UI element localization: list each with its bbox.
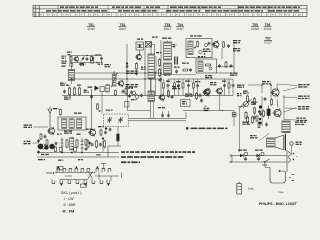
resistor R6 [115,90,117,96]
parts right of botb [218,61,233,68]
leader [283,96,297,99]
svg-text:T51: T51 [88,23,94,27]
label TR1 [295,122,306,126]
label bank1 [57,134,81,135]
wire [219,94,221,111]
wire rail D [37,152,119,154]
transistor T52 symbol [117,80,124,88]
wire [286,133,292,156]
cluster2 [185,92,202,100]
tuning capacitor C30 [104,114,129,127]
circle pot [41,144,46,149]
label T57 top [262,81,271,85]
parts cluster [128,88,136,95]
label between T55s [210,82,217,85]
svg-text:rete: rete [279,190,284,194]
label osc [105,64,111,67]
label GBT [250,135,258,139]
label above [137,37,158,40]
label ferrite [53,108,82,115]
transistor T55 heading [251,23,259,31]
trimmer arrow [81,57,85,62]
wire rail B [70,78,161,80]
label b.c [79,64,103,65]
label MW [64,203,76,207]
oscillator coil L2 [111,71,118,88]
note marker [186,127,228,129]
labels right column [297,84,310,121]
diode D2 [238,150,247,158]
wire AVC vertical [91,89,93,130]
svg-text:SK1 ( pos.I ): SK1 ( pos.I ) [61,191,82,195]
diagonal [259,134,270,142]
capacitor C6 [122,90,125,94]
IF band components [163,79,235,96]
node [71,72,162,96]
columns small [243,105,268,128]
resistor R14 [66,85,71,96]
svg-text:T53: T53 [165,23,171,27]
resistor R15 [73,87,75,96]
note text [121,151,195,163]
parts col A [55,142,58,153]
box interior extra [186,44,214,55]
electrolytic C33 [117,134,120,141]
wire [150,42,152,95]
leader lines [283,88,297,113]
output jack J1 [290,142,302,146]
node [206,110,223,111]
wire [70,56,102,63]
label FM [63,209,75,213]
capacitor C4 [70,55,98,66]
svg-text:batt.: batt. [249,186,255,190]
cluster right of T52b [98,126,107,140]
transistor T53 symbol [135,53,142,61]
wire [161,67,234,75]
svg-text:PHILIPS - MOD. L3I32T: PHILIPS - MOD. L3I32T [259,202,297,206]
svg-text:T56: T56 [265,23,271,27]
label above S5 [190,35,202,36]
label ant1 [24,125,33,129]
capacitor C15 [200,99,203,103]
label mid [141,67,146,70]
resistor R7 [135,62,137,70]
transistor T51a symbol [73,56,79,63]
label above T52b [64,129,92,134]
wire rail A2 [217,72,234,74]
wire [155,73,157,96]
resistor R1 [68,54,73,62]
label rete [279,190,284,194]
svg-text:II : MW: II : MW [64,203,76,207]
transistor T57 symbol [271,88,280,98]
transistor T55 symbol [203,88,210,96]
svg-text:III : FM: III : FM [63,209,75,213]
transistor T52 heading [119,23,127,31]
wire [233,111,235,127]
wire x145 [144,47,146,96]
IF transformer S5 box [186,39,212,58]
label PBT [251,102,257,105]
transistor T56 symbol [202,89,209,97]
wire tuning bus [129,112,187,121]
dark parts [256,115,261,124]
IF output box [196,59,217,73]
wire rail C2 [160,95,233,97]
label LW [64,197,74,201]
label R1 value [67,52,72,53]
svg-text:AF117: AF117 [119,28,127,31]
dark circles [38,144,55,150]
cluster right of S6 [158,86,180,101]
resistor col R25 [264,97,273,106]
wire [140,44,155,60]
svg-text:AF117: AF117 [164,28,172,31]
svg-text:T57: T57 [265,37,271,41]
label 4.7k [126,84,139,88]
transistor T51 symbol [47,127,55,136]
svg-text:AC126: AC126 [264,28,272,31]
battery B1 [237,182,242,194]
bandswitch SK1 diagram [46,164,122,188]
wire audio [240,104,244,152]
ferrite antenna L5 [58,117,86,130]
wire osc vertical [126,44,129,96]
svg-text:Cx: Cx [37,7,39,9]
label above botb [198,56,205,57]
label SK1 [61,191,82,195]
label bottom [38,154,101,161]
mains loop [270,168,294,184]
wire [248,84,263,126]
coil L1 [95,54,101,55]
parts col B [85,139,91,151]
wire FM bottom [70,62,103,64]
transistor T54 heading [176,23,184,31]
diode D3 [255,150,264,158]
wire pair [128,79,154,118]
label above can1 [162,38,171,39]
IF transformer S3 [148,54,155,79]
resistor R21 [245,111,247,119]
IF transformer S4b can [164,63,172,74]
transistor T54 symbol [212,40,219,48]
parts left col [37,139,48,154]
wire rail A [75,72,161,74]
driver transformer TR1 [282,121,290,133]
wire rail C [62,95,161,97]
boxed label AF-MF [181,100,191,107]
parts row2 [259,110,265,118]
AVC cluster [88,86,105,92]
label mid parts [182,63,192,73]
capacitor C40 [244,157,247,161]
svg-text:AF116: AF116 [87,28,95,31]
bottom stubs [161,111,170,118]
parts below tuning [105,127,112,131]
label band1 [164,75,170,76]
capacitor C41 [257,157,260,161]
capacitor C8 [135,72,138,76]
wire leader [33,127,49,143]
resistor R23b [246,116,253,124]
resistor R16 [77,85,81,96]
svg-text:I · LW: I · LW [64,197,74,201]
svg-text:T52: T52 [120,23,126,27]
power wire mid [230,161,287,163]
IF transformer S4 can [164,41,177,61]
label under S1 [60,83,65,86]
transistor T51 heading [87,23,95,31]
power wire top [230,155,287,157]
parts small [131,94,143,101]
IF transformer S6 [148,91,155,102]
label stack left [62,56,67,67]
capacitor C2 [86,57,89,61]
transistor T52b symbol [88,128,96,137]
wire [103,127,121,158]
wire [270,84,284,120]
svg-text:AF117: AF117 [176,28,184,31]
parts right bank [87,140,106,149]
label AF 4n [233,40,241,51]
svg-text:T54: T54 [177,23,183,27]
label 40n [204,106,210,111]
capacitor on AVC [90,95,93,99]
transistor T56 heading [264,23,272,31]
label ant2 [24,141,31,145]
coil bank [61,138,84,153]
svg-text:AC125: AC125 [251,28,259,31]
switch SK2 [262,159,270,167]
svg-text:T55: T55 [252,23,258,27]
dark plate pair [174,57,180,74]
transistor T57 heading [264,37,272,45]
IF transformer S2 [136,42,144,50]
parts2 [106,85,110,93]
wire detector [183,110,234,112]
parts col right [223,41,231,48]
loudspeaker LS1 [267,135,286,151]
transistor T53 heading [164,23,172,31]
chain R8 [156,52,162,82]
wire rail E [37,156,119,158]
wire [222,42,234,75]
resistor R3 [91,56,94,63]
capacitor C3 [100,57,103,63]
title PHILIPS [259,202,297,206]
leader2 [284,108,297,120]
label det [237,85,244,88]
svg-text:AC127: AC127 [264,41,272,44]
parts right col [125,84,131,111]
wire rail B2 [168,78,233,80]
power left vert [231,156,233,163]
diagonal wire [240,100,252,109]
parts mid [0,0,1,1]
label tuning [106,110,113,111]
label 220k [126,71,138,75]
wire [238,106,256,108]
label band2 [205,75,212,78]
IF band labels [166,81,227,83]
label band3 [230,73,238,76]
parts [63,90,89,94]
power right vert [286,150,288,172]
small boxes row [59,148,83,154]
wire [160,40,162,96]
stack R22 [253,97,256,119]
label batteria [249,186,255,190]
resistor R22b [243,91,249,103]
label under trio [64,97,71,100]
diode D1 [232,113,236,117]
label under cluster [158,107,165,108]
parts-list table [33,5,307,16]
parts under T51 [40,133,47,140]
IF transformer S1 [68,63,74,85]
resistor R17 [97,103,101,112]
wire [277,84,297,88]
battery bracket top [288,152,298,163]
crystal X1 [145,42,154,48]
transistor T55b symbol [215,87,222,95]
electrolytic C20 [267,105,270,119]
transistor T58 symbol [273,108,282,118]
volume potentiometer P1 [237,93,250,108]
antenna ANT1 [48,107,52,128]
wire [101,92,103,114]
power lower wire [265,162,270,168]
wire FM top [70,55,102,57]
